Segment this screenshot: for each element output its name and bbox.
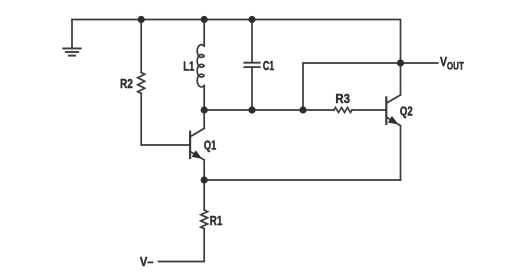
node tank-L1 — [201, 106, 208, 113]
svg-text:R3: R3 — [335, 91, 350, 106]
resistor R2 — [138, 73, 145, 94]
node tank-C1 — [248, 106, 255, 113]
svg-text:V–: V– — [140, 254, 154, 269]
wire R2 branch top — [140, 20, 142, 73]
wire R1 bottom to V- — [159, 229, 205, 262]
wire feedback from node to VOUT — [303, 63, 401, 110]
node rail-L1 — [201, 16, 208, 23]
wire emitter node to R1 — [203, 180, 205, 210]
node rail-R2 — [138, 16, 145, 23]
wire R2 bottom to Q1 base — [141, 93, 190, 145]
wire L1 bottom — [203, 86, 205, 111]
wire C1 top — [251, 20, 253, 63]
svg-text:Q1: Q1 — [204, 137, 216, 152]
wire R3 to Q2 base — [352, 109, 386, 111]
svg-text:Q2: Q2 — [400, 103, 413, 118]
resistor R3 — [334, 108, 352, 113]
resistor R1 — [201, 210, 208, 229]
capacitor C1 — [244, 63, 259, 67]
inductor L1 — [197, 45, 204, 87]
node rail-C1 — [248, 16, 255, 23]
wire L1 top — [203, 20, 205, 47]
wire C1 bottom — [251, 67, 253, 110]
wire tank bottom node line — [204, 109, 334, 111]
node feedback — [299, 106, 306, 113]
node VOUT — [397, 59, 404, 66]
svg-text:L1: L1 — [183, 58, 194, 73]
svg-text:OUT: OUT — [447, 60, 464, 72]
svg-text:C1: C1 — [263, 58, 274, 73]
wire emitter return bottom — [204, 179, 400, 181]
transistor Q1 — [190, 110, 204, 180]
wire top rail from ground to right vertical — [72, 20, 401, 64]
ground — [63, 20, 80, 56]
transistor Q2 — [386, 63, 400, 180]
svg-text:R1: R1 — [210, 213, 223, 228]
svg-text:R2: R2 — [120, 76, 133, 91]
node VOUT label — [440, 54, 464, 73]
wire VOUT stub — [401, 62, 438, 64]
node emitter — [201, 176, 208, 183]
